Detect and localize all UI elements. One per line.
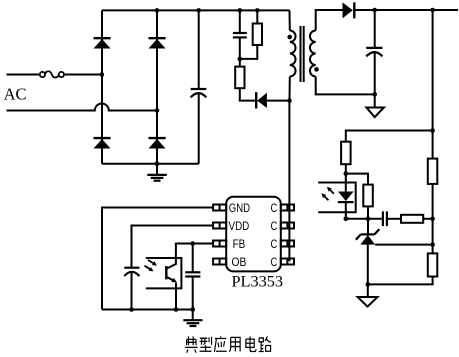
wire R3 to LED node xyxy=(345,164,347,173)
wire FB pin to junction xyxy=(193,243,213,245)
node compensation rail junction xyxy=(430,217,435,222)
ground earth symbol at IC xyxy=(183,310,202,327)
wire bottom rail left xyxy=(102,309,193,311)
pin 3 FB stub xyxy=(213,241,226,247)
wire node A to R4 xyxy=(346,174,368,185)
wire ref line to divider xyxy=(375,244,432,246)
resistor R5 compensation xyxy=(401,215,423,223)
diode D1 xyxy=(94,38,111,48)
wire AC top line (fuse to bridge) xyxy=(64,74,102,76)
IC U1 PL3353 body xyxy=(226,197,281,272)
diode D3 xyxy=(94,138,111,148)
pin 4 OB stub xyxy=(213,259,226,265)
pin 8 C stub xyxy=(281,205,294,211)
pin 7 C stub xyxy=(281,223,294,229)
node emitter rail junction xyxy=(174,307,179,312)
node T1 primary polarity dot xyxy=(287,35,292,40)
diode D5 output rectifier xyxy=(343,2,355,18)
transformer T1 core xyxy=(301,26,304,82)
wire output rail xyxy=(355,9,458,11)
fuse F1 xyxy=(40,71,64,77)
wire secondary top to diode xyxy=(316,10,343,31)
pin 2 VDD stub xyxy=(213,223,226,229)
transformer T1 secondary winding xyxy=(310,31,316,77)
wire right rail middle xyxy=(432,184,434,254)
wire R4 bottom xyxy=(367,206,369,218)
node right rail top junction xyxy=(430,8,435,13)
pin 1 GND stub xyxy=(213,205,226,211)
diode D6 clamp xyxy=(256,92,289,108)
svg-text:PL3353: PL3353 xyxy=(232,272,284,291)
optocoupler U2 LED box xyxy=(318,183,356,213)
transformer T1 primary winding xyxy=(290,10,296,100)
wire right bridge arm xyxy=(156,10,158,163)
node A LED anode junction xyxy=(344,171,349,176)
wire left bridge arm xyxy=(101,10,103,163)
node right arm top xyxy=(155,8,160,13)
ground signal triangle regulator xyxy=(358,284,378,306)
svg-text:C: C xyxy=(271,219,278,233)
svg-text:OB: OB xyxy=(232,255,247,269)
resistor R7 divider lower xyxy=(428,253,438,276)
node C1 top xyxy=(196,8,201,13)
node anode junction xyxy=(366,282,371,287)
label pins C xyxy=(271,201,278,269)
svg-text:C: C xyxy=(271,237,278,251)
wire FB junction to collector xyxy=(176,244,193,259)
wire right rail upper xyxy=(432,10,434,159)
wire bottom rail of bridge xyxy=(102,163,199,165)
diode D4 xyxy=(149,138,166,148)
resistor R3 feedback upper xyxy=(341,142,351,165)
wire AC top line (left segment) xyxy=(7,74,40,76)
zener D7 shunt regulator xyxy=(356,219,380,285)
capacitor C4 VDD electrolytic xyxy=(124,268,139,310)
LED U2 emitter diode xyxy=(338,174,354,219)
capacitor C1 bulk electrolytic xyxy=(191,10,207,163)
node AC top junction xyxy=(100,72,105,77)
ground earth symbol at bridge xyxy=(147,164,167,181)
resistor R1 snubber xyxy=(240,10,262,59)
svg-text:FB: FB xyxy=(233,237,246,251)
svg-text:C: C xyxy=(271,255,278,269)
node T1 secondary polarity dot xyxy=(314,67,319,72)
phototransistor Q1 light arrows xyxy=(145,260,158,272)
optocoupler U2 transistor box xyxy=(146,258,182,288)
node bottom rail ground junction xyxy=(155,161,160,166)
label caption 典型应用电路 xyxy=(185,336,271,352)
node ref rail junction xyxy=(430,242,435,247)
node feedback tap junction xyxy=(430,128,435,133)
capacitor C6 compensation xyxy=(383,211,401,226)
capacitor C3 output electrolytic xyxy=(366,10,382,94)
node snubber resistor top xyxy=(255,8,260,13)
svg-text:AC: AC xyxy=(4,85,27,104)
capacitor C2 snubber xyxy=(233,10,247,59)
capacitor C5 FB xyxy=(185,244,200,310)
wire GND pin to left rail xyxy=(102,208,213,310)
svg-text:VDD: VDD xyxy=(229,219,250,233)
svg-text:C: C xyxy=(271,201,278,215)
wire VDD pin to cap xyxy=(132,226,214,268)
resistor R2 clamp series xyxy=(235,59,256,101)
resistor R4 parallel with LED xyxy=(363,185,373,207)
ground signal triangle output xyxy=(366,94,384,117)
wire feedback top xyxy=(346,131,433,142)
node AC bottom junction xyxy=(155,108,160,113)
node B LED cathode junction xyxy=(344,217,349,222)
wire AC bottom line with hop over left bridge arm xyxy=(7,104,158,111)
node FB junction xyxy=(190,241,195,246)
svg-text:GND: GND xyxy=(229,201,250,215)
node ground rail junction xyxy=(190,307,195,312)
resistor R6 divider upper xyxy=(428,159,438,184)
node output cap junction xyxy=(372,8,377,13)
node C4 rail junction xyxy=(129,307,134,312)
node B' R4 bottom junction xyxy=(366,217,371,222)
wire R5 to right rail xyxy=(423,218,432,220)
diode D2 xyxy=(149,38,166,48)
pin 5 C stub xyxy=(281,259,294,265)
wire top rail xyxy=(102,9,290,11)
wire right rail bottom to anode node xyxy=(368,277,433,285)
wire drain bus to IC xyxy=(288,101,290,262)
pin 6 C stub xyxy=(281,241,294,247)
node snubber cap top xyxy=(238,8,243,13)
phototransistor Q1 xyxy=(166,258,177,310)
node clamp to primary junction xyxy=(287,98,292,103)
wire B to compensation cap xyxy=(346,218,383,220)
LED U2 light arrows xyxy=(321,187,334,201)
node secondary return junction xyxy=(372,92,377,97)
node snubber junction xyxy=(238,57,243,62)
wire secondary bottom return xyxy=(316,77,375,95)
